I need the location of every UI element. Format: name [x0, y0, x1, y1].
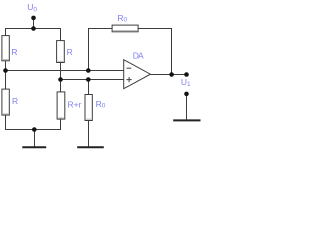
svg-text:R+r: R+r	[68, 100, 82, 110]
svg-text:DA: DA	[133, 51, 144, 61]
svg-text:R0: R0	[96, 99, 106, 109]
resistor R2	[57, 41, 65, 63]
resistor R3	[2, 89, 9, 115]
svg-text:R: R	[11, 47, 17, 57]
node middle bridge mid	[58, 77, 63, 82]
wire R0 lower stub	[88, 80, 90, 95]
svg-text:R: R	[67, 47, 73, 57]
resistor R0 top	[112, 25, 138, 32]
svg-text:U0: U0	[27, 2, 37, 13]
wire top-left horizontal with corners	[6, 29, 61, 41]
svg-text:U1: U1	[181, 77, 191, 88]
node left bridge mid	[3, 68, 8, 73]
resistor inner shading lines	[3, 59, 9, 61]
wire feedback left	[89, 29, 113, 71]
wire U1 ground stub	[186, 94, 188, 120]
wire left column bottom	[6, 115, 61, 129]
node R0 lower junction	[86, 77, 91, 82]
resistor R1	[2, 36, 9, 61]
node U1 terminal	[184, 72, 189, 77]
node bottom ground junction	[32, 127, 37, 132]
node U1 ground terminal	[184, 92, 189, 97]
ground middle	[77, 146, 104, 148]
node U0 terminal	[31, 16, 36, 21]
node U0 junction	[31, 26, 36, 31]
resistor R0 lower	[85, 95, 92, 121]
wire feedback right	[138, 29, 171, 75]
svg-text:R0: R0	[117, 13, 127, 23]
resistor R+r	[57, 92, 65, 119]
node feedback junction	[86, 68, 91, 73]
wire inverting input (wire1)	[6, 70, 124, 72]
wire U0 stub	[33, 18, 35, 29]
wire output	[150, 74, 186, 76]
wire R0 lower to ground	[88, 121, 90, 147]
wire non-inverting input (wire2)	[61, 79, 124, 81]
ground left	[22, 146, 46, 148]
ground right	[173, 119, 200, 121]
wire ground stub left	[34, 130, 36, 147]
wire R+r top stub	[60, 80, 62, 92]
svg-text:R: R	[12, 96, 18, 106]
node output feedback junction	[169, 72, 174, 77]
wire middle column	[60, 63, 62, 80]
wire left column middle	[5, 61, 7, 89]
op-amp DA	[124, 60, 151, 89]
